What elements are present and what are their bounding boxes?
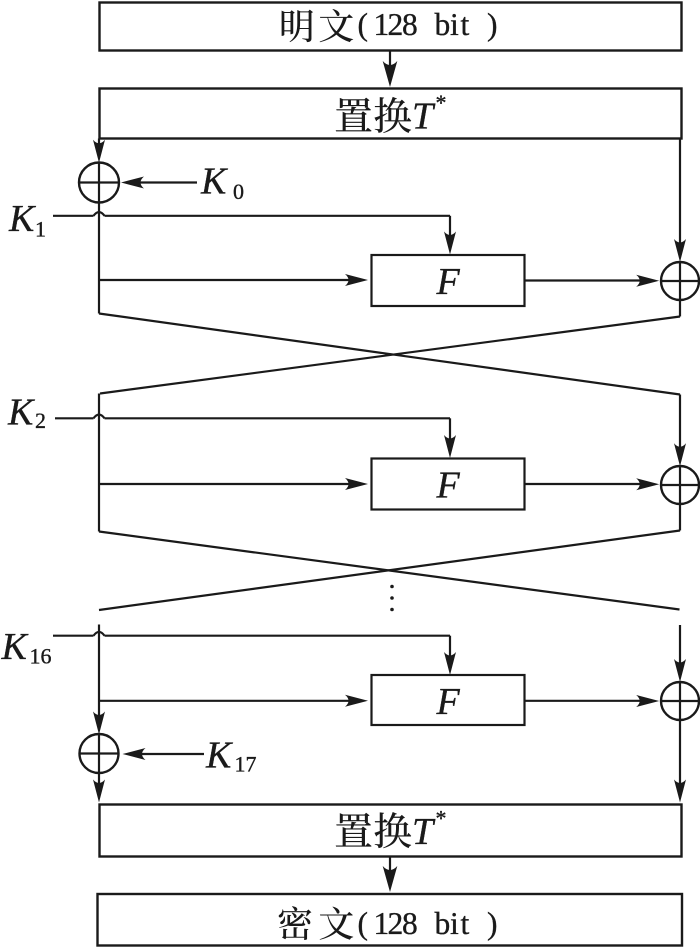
wire: swap diagonal right-to-left (round 1 to 2) (100, 317, 680, 394)
svg-text:*: * (436, 90, 447, 115)
svg-text:F: F (436, 681, 461, 723)
XOR node D (left, final whitening) (80, 734, 119, 773)
svg-text:T: T (412, 95, 436, 137)
text: 置 (bottom permutation) (336, 813, 372, 847)
arrow: bottom permutation to ciphertext box (389, 857, 391, 880)
arrow: K1 down into F box 1 (449, 216, 451, 243)
XOR node E (right, round 3) (661, 682, 699, 720)
XOR node A (left, round 1) (79, 163, 119, 203)
arrow: left data down into XOR D (93, 712, 105, 735)
text: 文 (plaintext box) (320, 9, 354, 42)
svg-text:K: K (200, 161, 228, 203)
arrow: F3 output into XOR E (525, 700, 648, 702)
wire: XOR B output down (679, 300, 681, 317)
wire: XOR A output down left side (98, 203, 100, 314)
svg-text:1: 1 (35, 217, 46, 242)
wire: right vertical from permutation box into XOR B (679, 139, 681, 251)
wire: left vertical round 2 (98, 394, 100, 532)
wire: swap diagonal left-to-right (round 2 to 3) (99, 532, 680, 610)
XOR node C (right, round 2) (661, 466, 699, 504)
box: ciphertext 密文(128 bit) (98, 894, 683, 946)
box: permutation 置换T* (top) (100, 89, 682, 139)
arrow: K16 down into F box 3 (449, 636, 451, 664)
arrow: subkey K0 into XOR A (133, 181, 197, 183)
wire: left vertical from permutation box into XOR A (98, 139, 100, 152)
XOR node B (right, round 1) (661, 262, 699, 300)
svg-text:17: 17 (235, 752, 257, 777)
svg-text:F: F (436, 261, 461, 303)
svg-text:K: K (205, 735, 233, 777)
wire: XOR C output down (679, 504, 681, 531)
box: plaintext 明文(128 bit) (100, 3, 682, 51)
wire: left vertical round 3 (98, 625, 100, 724)
svg-text:*: * (436, 806, 447, 831)
text: 置 (top permutation) (336, 98, 372, 132)
arrow: right vertical into XOR C (679, 395, 681, 456)
text: 文 (ciphertext box) (320, 907, 354, 940)
svg-text:T: T (412, 811, 436, 853)
arrow: left data into F box 2 (99, 483, 356, 485)
arrow: XOR E output into bottom permutation box (679, 720, 681, 791)
arrow: plaintext box to permutation box (389, 51, 391, 75)
wire: K1 horizontal with hop over left data line (53, 215, 94, 217)
arrow: left data into F box 1 (99, 279, 356, 281)
box: round function F1 (372, 255, 525, 306)
arrow: F2 output into XOR C (525, 483, 648, 485)
svg-text:K: K (1, 626, 29, 668)
svg-text:0: 0 (233, 179, 244, 204)
svg-text:K: K (8, 198, 36, 240)
arrow: right vertical into XOR E (round 3) (679, 625, 681, 671)
wire: K2 horizontal with hop over left data line (55, 417, 94, 419)
svg-text:16: 16 (30, 644, 52, 669)
arrow: K2 down into F box 2 (449, 418, 451, 446)
svg-text:K: K (7, 391, 35, 433)
arrow: F1 output into XOR B (525, 279, 648, 281)
arrow: subkey K17 into XOR D (134, 753, 204, 755)
wire: K16 horizontal with hop over left data line (53, 635, 94, 637)
arrow: left data into F box 3 (99, 700, 356, 702)
wire: swap diagonal right-to-left (round 2 to 3) (99, 531, 680, 611)
text: 换 (top permutation) (374, 97, 411, 133)
svg-text:F: F (436, 465, 461, 507)
svg-text:2: 2 (35, 408, 46, 433)
ellipsis: omitted rounds (390, 585, 394, 589)
box: round function F3 (372, 675, 525, 725)
text: 密 (ciphertext box) (279, 906, 312, 940)
text: 换 (bottom permutation) (374, 812, 411, 848)
wire: swap diagonal left-to-right (round 1 to 2) (99, 314, 680, 395)
box: permutation 置换T* (bottom) (100, 805, 682, 857)
box: round function F2 (372, 459, 525, 510)
arrow: XOR D output into bottom permutation box (98, 773, 100, 791)
text: 明 (plaintext box) (282, 10, 313, 43)
